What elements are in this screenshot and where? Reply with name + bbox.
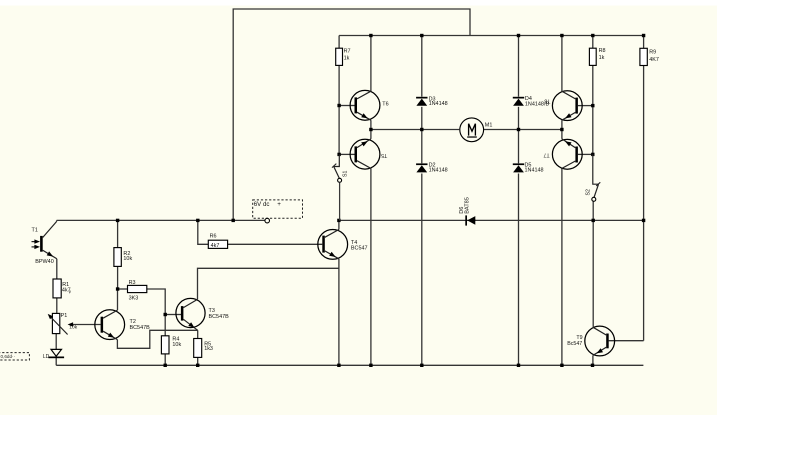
svg-text:BC547B: BC547B (209, 314, 230, 320)
svg-text:10k: 10k (123, 256, 132, 262)
svg-text:6V dc: 6V dc (254, 201, 270, 208)
wire ground rail (bottom) (56, 364, 643, 366)
svg-text:S2: S2 (586, 189, 592, 195)
svg-text:1N4148: 1N4148 (429, 101, 448, 107)
transistor T8 (544, 91, 582, 121)
svg-text:R7: R7 (344, 48, 351, 54)
wire T6 base (339, 105, 354, 107)
junction dots on supply net y220 (116, 219, 645, 222)
svg-text:1k: 1k (344, 55, 350, 61)
junction dots transistor bases (337, 104, 594, 156)
comment box (dashed) bottom left (0, 353, 29, 360)
wire T7 collector to ground rail (561, 168, 563, 365)
wire T2 emitter run (117, 330, 197, 348)
transistor T9 Bc547 (567, 326, 614, 356)
wire R9 column (643, 36, 645, 341)
motor M1 (460, 118, 493, 142)
diode LD (43, 349, 64, 360)
svg-text:1N4148: 1N4148 (525, 168, 544, 174)
wire T8 collector to rail (561, 36, 563, 92)
diode D3 1N4148 (416, 96, 448, 107)
svg-text:10k: 10k (69, 325, 77, 331)
resistor R7 1k (336, 48, 351, 65)
wire D3/D2 column (421, 36, 423, 366)
transistor T5 (350, 139, 387, 169)
wire R1 to P1 (56, 298, 58, 314)
svg-text:BC547B: BC547B (130, 325, 151, 331)
svg-text:T8: T8 (544, 98, 550, 104)
wire 6V supply net left segment (57, 219, 265, 221)
wire T4 emitter to ground (338, 259, 340, 366)
wire T5 emitter to motor node (370, 130, 372, 139)
wire S2 to T9 collector (592, 201, 594, 327)
svg-text:M1: M1 (485, 122, 493, 128)
wire T3 base (165, 314, 181, 316)
wire R8 column to T8/T7 bases (592, 36, 594, 155)
wire T5 base (339, 153, 354, 155)
diode D5 1N4148 (513, 163, 544, 174)
wire R4 to ground (164, 354, 166, 365)
wire node to R4 (164, 315, 166, 336)
svg-text:1k: 1k (599, 55, 605, 61)
svg-text:0,6dd··: 0,6dd·· (1, 354, 16, 359)
svg-text:T7: T7 (543, 152, 549, 158)
diode D6 BAT85 (459, 197, 476, 225)
svg-text:R3: R3 (129, 280, 136, 286)
svg-text:4K7: 4K7 (649, 57, 659, 63)
wire motor line right (484, 129, 562, 131)
wire T2 base from P1 wiper (72, 324, 101, 326)
junction dots left amp (116, 287, 167, 316)
svg-text:P1: P1 (61, 313, 68, 319)
wire node R2/R3 (118, 288, 128, 290)
wire R6 to T4 base (228, 243, 323, 245)
transistor T1 (BPW40 phototransistor) (32, 222, 57, 266)
transistor T7 (543, 139, 582, 169)
wire T9 base (609, 340, 644, 342)
resistor R2 10k (114, 248, 133, 267)
wire LD to ground rail (55, 358, 57, 366)
svg-text:R8: R8 (599, 48, 606, 54)
wire T8 base (578, 105, 593, 107)
wire P1 to LD (55, 334, 57, 350)
wire D4/D5 column (518, 36, 520, 366)
svg-text:T6: T6 (382, 102, 388, 108)
transistor T6 (350, 90, 389, 120)
svg-text:BAT85: BAT85 (464, 197, 470, 214)
svg-text:10k: 10k (172, 342, 181, 348)
switch S2 (586, 154, 601, 201)
wire T8 emitter to motor node (561, 120, 563, 129)
svg-text:BC547: BC547 (351, 246, 368, 252)
transistor T3 BC547B (176, 298, 229, 330)
wire T1 emitter to R1 (56, 259, 58, 279)
wire +supply rail of H-bridge (339, 35, 643, 37)
wire R5 to ground (197, 357, 199, 365)
wire left bridge column R7/T6/T5 bases (338, 36, 340, 155)
supply 6V dc (dashed box with terminal) (253, 200, 303, 223)
diode D2 1N4148 (416, 163, 448, 174)
junction dots on motor line (369, 128, 563, 131)
wire T3 collector run (198, 268, 339, 299)
wire T7 emitter to motor node (561, 130, 563, 139)
svg-text:BPW40: BPW40 (35, 259, 53, 265)
svg-text:R9: R9 (649, 50, 656, 56)
wire T7 base (578, 153, 593, 155)
resistor R4 10k (161, 336, 181, 354)
wire T2 collector (117, 289, 119, 310)
resistor R8 1k (589, 48, 605, 66)
transistor T2 BC547B (95, 310, 150, 340)
wire T6 emitter to motor node (370, 120, 372, 129)
resistor R9 4K7 (640, 48, 659, 65)
wire T1 collector to supply net (56, 220, 58, 221)
resistor R5 1k3 (194, 339, 213, 358)
junction dots on +rail (369, 34, 645, 37)
potentiometer P1 10k (48, 313, 78, 335)
svg-text:1N4148: 1N4148 (429, 168, 448, 174)
svg-text:S1: S1 (343, 171, 349, 177)
switch S1 (332, 154, 349, 220)
resistor R1 4k7 (53, 279, 72, 298)
resistor R6 4k7 (208, 233, 227, 249)
wire T4 collector (338, 220, 340, 229)
wire R2 top (117, 220, 119, 247)
wire motor line left (371, 129, 459, 131)
diode D4 1N4148/B (513, 96, 550, 108)
svg-text:R6: R6 (210, 233, 217, 239)
svg-text:1k3: 1k3 (204, 346, 213, 352)
svg-text:Bc547: Bc547 (567, 341, 582, 347)
svg-text:LD: LD (43, 354, 50, 360)
wire top feed from node A to H-bridge (233, 9, 470, 220)
wire T3 emitter node to R5 (197, 330, 199, 338)
wire R3 to T3 base node (147, 289, 165, 315)
wire T5 collector to ground rail (370, 168, 372, 365)
junction dots ground rail (164, 364, 595, 367)
svg-text:3K3: 3K3 (129, 296, 139, 302)
wire T9 emitter to ground (592, 355, 594, 365)
wire T6 collector to rail (370, 36, 372, 92)
transistor T4 BC547 (318, 230, 368, 260)
svg-text:4k7: 4k7 (211, 243, 220, 249)
wire R6 feed (198, 220, 209, 244)
svg-text:T5: T5 (381, 152, 387, 158)
svg-text:+: + (277, 201, 281, 208)
wire supply net right segment (339, 219, 644, 221)
svg-text:T1: T1 (32, 228, 38, 234)
resistor R3 3K3 (128, 280, 147, 302)
wire R2 bottom to node (117, 266, 119, 289)
